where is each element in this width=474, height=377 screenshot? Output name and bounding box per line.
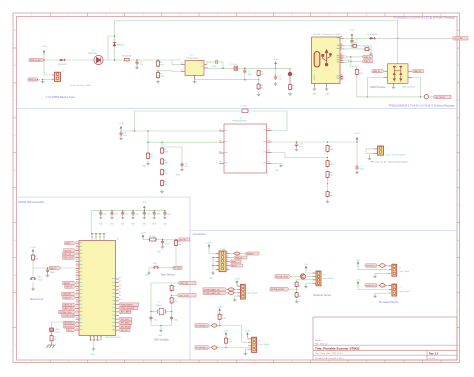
- svg-text:2: 2: [68, 361, 69, 363]
- global label mcu-right PWM_SERVO: [119, 303, 139, 306]
- usb trident symbol: [322, 50, 332, 66]
- resistor R20 power sw: [51, 332, 53, 335]
- resistor R9: [161, 169, 163, 170]
- rf screw terminal J4: [378, 146, 384, 155]
- svg-text:J?: J?: [399, 287, 401, 289]
- global label MOTOR: [364, 284, 376, 287]
- svg-text:R? 5.1K: R? 5.1K: [350, 42, 357, 44]
- junction fb col: [327, 183, 329, 185]
- wire usb D+ pair: [344, 56, 347, 58]
- svg-text:OSC_IN: OSC_IN: [180, 283, 188, 285]
- svg-text:SPI_CS: SPI_CS: [121, 330, 129, 332]
- mcu left pins: [76, 242, 79, 244]
- svg-text:+5.0V: +5.0V: [273, 59, 279, 61]
- pin esd left io: [384, 70, 388, 72]
- wire ir gnd: [246, 349, 249, 351]
- wire swdio 2: [241, 253, 245, 255]
- wire motor signal: [377, 265, 380, 267]
- svg-text:Ultrasonic Sensor: Ultrasonic Sensor: [313, 294, 331, 297]
- resistor R3b divider: [258, 83, 260, 84]
- svg-text:Conn_01x04: Conn_01x04: [258, 344, 269, 346]
- svg-text:680u: 680u: [248, 74, 252, 76]
- svg-text:GND: GND: [326, 94, 331, 96]
- junction decap 4: [132, 210, 134, 212]
- svg-text:J: J: [458, 345, 459, 347]
- resistor R3a divider: [258, 70, 260, 71]
- wire boot node: [157, 239, 178, 241]
- global label ULTRASONIC_ECHO: [270, 287, 289, 291]
- power symbol +3.3V uart: [236, 281, 238, 286]
- ground SW2: [147, 271, 151, 274]
- global label esd in: [372, 70, 384, 73]
- ground U1 return: [193, 80, 197, 83]
- wire U1 output rail: [207, 67, 209, 69]
- global label IR_SENSE_1: [195, 324, 210, 328]
- svg-text:GND: GND: [313, 94, 318, 96]
- junction ir1: [219, 325, 221, 327]
- wire ir2 node: [225, 344, 227, 347]
- global label NRST swd: [230, 264, 243, 267]
- ground ultrasonic: [304, 285, 308, 288]
- svg-text:+3.3V: +3.3V: [217, 307, 223, 309]
- wire D1 riser to top rail: [114, 21, 116, 61]
- usb-c oval symbol: [314, 52, 320, 68]
- ground usb shell 2: [325, 87, 329, 90]
- wire motor to conn: [386, 284, 392, 286]
- svg-text:+7.4V: +7.4V: [118, 123, 124, 125]
- svg-text:Boot Selector: Boot Selector: [161, 274, 175, 277]
- wire U2 vout: [272, 141, 358, 143]
- wire ultra vcc: [306, 271, 316, 273]
- ground SW1: [32, 282, 34, 287]
- ground J4: [369, 154, 371, 157]
- wire uart gnd: [235, 296, 237, 298]
- svg-text:USB_D+: USB_D+: [364, 57, 372, 59]
- pins U2 right: [267, 130, 272, 132]
- wire switch right: [159, 267, 172, 269]
- svg-text:MOTOR_1: MOTOR_1: [65, 323, 74, 325]
- pins motor conn: [388, 285, 392, 287]
- ground C10: [295, 148, 299, 151]
- svg-text:2: 2: [68, 15, 69, 17]
- junction battery rail: [43, 59, 45, 61]
- ground C1: [135, 65, 139, 68]
- ground decap 1: [99, 216, 102, 219]
- diode D3 on riser: [113, 43, 116, 47]
- svg-text:ULTRA_ECHO: ULTRA_ECHO: [63, 314, 76, 317]
- svg-text:22u: 22u: [299, 146, 302, 148]
- ground C17: [46, 273, 50, 276]
- global label esd out: [412, 70, 424, 73]
- svg-text:Title: Portable Scanner STM32: Title: Portable Scanner STM32: [315, 347, 360, 351]
- wire top rail +in: [115, 20, 398, 22]
- svg-text:USB_DM: USB_DM: [63, 294, 71, 296]
- svg-text:BT_SW: BT_SW: [174, 268, 181, 270]
- svg-text:PWR_FLAG: PWR_FLAG: [29, 78, 40, 81]
- svg-text:8: 8: [291, 361, 292, 363]
- resistor R16 boot: [143, 239, 149, 241]
- svg-text:SW?: SW?: [38, 277, 42, 279]
- svg-text:150K: 150K: [164, 162, 169, 164]
- wire VBUS: [344, 37, 398, 39]
- svg-text:USB_DP: USB_DP: [413, 71, 421, 73]
- switch SW2 boot: [154, 267, 155, 268]
- connector J5 swd: [219, 251, 226, 272]
- ground divider: [160, 190, 164, 193]
- ferrite ir2 oval: [212, 346, 217, 349]
- junction +5V tap: [275, 68, 277, 70]
- svg-text:USB Protection: USB Protection: [370, 86, 386, 89]
- junction decap 6: [153, 210, 155, 212]
- svg-text:10: 10: [365, 361, 367, 363]
- svg-text:TPS61023DRLR 2.7V-4.2V to 5.0V: TPS61023DRLR 2.7V-4.2V to 5.0V @ 3.1A Bo…: [389, 105, 456, 108]
- svg-text:SHIELD: SHIELD: [314, 74, 316, 81]
- connector J8 ir: [252, 337, 257, 352]
- power symbol +5V motor: [357, 282, 359, 287]
- pin U1 BOOT: [204, 64, 207, 66]
- microcontroller U3 STM32 body: [79, 241, 116, 336]
- ground motor: [373, 294, 377, 297]
- svg-text:ULTRA_TRIG: ULTRA_TRIG: [60, 311, 72, 314]
- pin J1-2: [52, 79, 55, 81]
- capacitor C10 vout: [296, 142, 298, 144]
- svg-text:Reset Circuit: Reset Circuit: [30, 298, 44, 301]
- wire R divider to ENA: [158, 70, 181, 73]
- svg-text:7.4V 18650 Battery Input: 7.4V 18650 Battery Input: [46, 95, 75, 99]
- ground decap 7: [163, 216, 166, 219]
- resistor R19 hse: [171, 297, 173, 298]
- wire crystal right: [165, 311, 171, 313]
- resistor R1: [157, 60, 159, 61]
- global label mcu-left IR_1: [67, 328, 76, 331]
- ground R6: [146, 162, 150, 165]
- wire sense to +5 loop: [356, 76, 358, 97]
- svg-text:16MHz: 16MHz: [156, 305, 162, 307]
- wire vbus sense drop: [351, 57, 357, 68]
- wire uart tx: [234, 288, 238, 290]
- svg-text:J3 USB_C_Receptacle_USB2.0: J3 USB_C_Receptacle_USB2.0: [313, 33, 342, 36]
- svg-text:PWR_FLAG: PWR_FLAG: [30, 59, 41, 62]
- wire vss drop: [93, 340, 95, 347]
- ground decap 4: [131, 216, 134, 219]
- wire rail jog to U1: [172, 60, 181, 65]
- wire trig: [306, 275, 313, 277]
- decoupling rail +3.3V: [91, 210, 165, 212]
- connector J6 uart: [241, 284, 246, 299]
- capacitor C20 xtal: [171, 312, 173, 316]
- wire hse top tap: [172, 282, 178, 284]
- resistor R5 CC2: [344, 48, 365, 50]
- svg-text:+3.3V: +3.3V: [234, 279, 240, 281]
- svg-text:NRST: NRST: [231, 265, 237, 267]
- power symbol +5.5V buck out: [275, 62, 277, 67]
- svg-text:100n: 100n: [167, 214, 171, 216]
- wire U2 gnd pin: [272, 163, 282, 165]
- ground U2: [279, 164, 283, 167]
- wire uart rx: [234, 292, 238, 294]
- ground swd: [211, 271, 215, 274]
- diode D2 input: [59, 59, 60, 61]
- svg-text:1: 1: [31, 15, 32, 17]
- ground battery: [41, 80, 45, 83]
- wire riser stub: [108, 36, 115, 60]
- wire J1-2 gnd: [43, 79, 53, 81]
- svg-text:100n: 100n: [103, 214, 107, 216]
- ground usb shell 1: [313, 87, 317, 90]
- svg-text:100K: 100K: [329, 164, 334, 166]
- global label COMP_UART_RX: [203, 291, 227, 294]
- junction decap 5: [144, 210, 146, 212]
- global label USB_DP: [362, 55, 373, 58]
- svg-text:5: 5: [180, 15, 181, 17]
- global label mcu-left SWDIO: [63, 281, 76, 284]
- wire boot loop: [207, 62, 215, 65]
- wire swdio: [230, 253, 234, 255]
- svg-text:SPI_MOSI: SPI_MOSI: [121, 326, 131, 328]
- svg-text:OSC_OUT: OSC_OUT: [64, 258, 74, 260]
- ground decap 2: [110, 216, 113, 219]
- svg-text:SWDIO: SWDIO: [64, 283, 71, 285]
- ground ir: [244, 352, 248, 355]
- global label ULTRA_TRIG: [275, 275, 291, 279]
- svg-text:9: 9: [329, 15, 330, 17]
- diode D5 vbus schottky: [369, 37, 370, 39]
- svg-text:F1 500mA: F1 500mA: [122, 54, 132, 57]
- wire esd vbus left loop: [367, 78, 420, 97]
- global label SWDIO: [245, 253, 246, 255]
- pin J4-2: [374, 153, 378, 155]
- svg-text:SWDIO: SWDIO: [247, 253, 254, 255]
- svg-text:100n: 100n: [114, 214, 118, 216]
- svg-text:UART_TX: UART_TX: [64, 304, 74, 307]
- svg-text:510K: 510K: [329, 149, 334, 151]
- svg-text:COMP_UART_TX: COMP_UART_TX: [204, 288, 220, 291]
- svg-text:+3.3V: +3.3V: [245, 331, 251, 333]
- resistor R3 led: [289, 84, 291, 85]
- capacitor C7 vbus: [351, 38, 353, 40]
- esd protector U4 body: [388, 64, 409, 84]
- global label mcu-right PWM_BUZZER: [119, 307, 138, 310]
- svg-text:100n: 100n: [50, 272, 54, 274]
- junction vbus riser: [397, 38, 399, 40]
- wire mcu vdd risers: [91, 234, 93, 241]
- svg-text:SPI_SCK: SPI_SCK: [121, 319, 130, 321]
- power symbol +7.4V battery: [43, 51, 45, 56]
- global label mcu-right SPI_MOSI: [119, 325, 131, 328]
- svg-text:DC Geared Motors: DC Geared Motors: [379, 301, 399, 304]
- svg-text:SW?: SW?: [153, 263, 157, 265]
- resistor R23 ir1: [219, 313, 221, 314]
- junction sbu sense 1: [350, 56, 352, 58]
- svg-text:D3: D3: [113, 40, 115, 42]
- ground C18: [161, 245, 165, 248]
- led D4 power: [289, 68, 291, 71]
- capacitor C8 boost in: [120, 131, 122, 133]
- svg-text:Reset: Reset: [38, 278, 43, 281]
- wire motor signal: [377, 284, 380, 286]
- svg-text:300K: 300K: [164, 152, 169, 154]
- wire bead to label: [429, 96, 433, 98]
- svg-text:OSC_OUT: OSC_OUT: [179, 295, 190, 297]
- svg-text:L1 4.7uH: L1 4.7uH: [230, 64, 238, 66]
- svg-text:BOOT0: BOOT0: [65, 250, 72, 252]
- svg-text:L2 1uH: L2 1uH: [240, 106, 247, 108]
- svg-text:GND: GND: [275, 170, 280, 172]
- svg-text:+5V: +5V: [350, 30, 354, 32]
- pin U1 VIN: [181, 64, 185, 66]
- svg-text:PWM_SERVO: PWM_SERVO: [121, 304, 134, 306]
- global label MOTOR: [364, 264, 376, 267]
- ground C6: [274, 82, 278, 85]
- global label mcu-left USB_DM: [62, 292, 76, 295]
- power symbol +3.3V ir2: [225, 333, 227, 338]
- svg-text:J?: J?: [399, 268, 401, 270]
- svg-text:47u: 47u: [279, 79, 282, 81]
- wire hse mid tap: [172, 294, 177, 296]
- svg-text:RF coax can be soldered onto h: RF coax can be soldered onto header: [371, 161, 408, 164]
- wire boost input rail: [121, 130, 224, 132]
- global label mcu-right SPI_CS: [119, 328, 130, 331]
- global label mcu-left ULTRA_ECHO: [62, 314, 76, 317]
- ground uart: [233, 298, 237, 301]
- svg-text:MBR230: MBR230: [117, 44, 124, 46]
- svg-text:Conn_01x03: Conn_01x03: [399, 291, 410, 293]
- ground motor: [373, 274, 377, 277]
- svg-text:+5V_USB: +5V_USB: [454, 38, 463, 40]
- global label mcu-left SWCLK: [65, 285, 76, 288]
- wire reset to mcu: [33, 267, 76, 269]
- svg-text:TPS61023DRLR: TPS61023DRLR: [232, 120, 247, 122]
- svg-text:Power: Power: [56, 331, 62, 334]
- wire divider tap: [162, 147, 182, 162]
- junction R1/R2: [157, 70, 159, 72]
- global label mcu-right ADC_BATT: [119, 310, 131, 313]
- capacitor C17 reset: [47, 268, 49, 270]
- svg-text:1.5K: 1.5K: [359, 73, 364, 75]
- wire boot to switch: [175, 247, 177, 268]
- junction sbu sense 2: [350, 61, 352, 63]
- ground C9: [180, 167, 184, 170]
- wire decap rail drop: [91, 211, 104, 234]
- svg-text:TPS5430DDA 5.2V-8.4V to 5.5V @: TPS5430DDA 5.2V-8.4V to 5.5V @ 3A Power …: [393, 16, 455, 19]
- switch SW3 power: [50, 328, 54, 332]
- svg-text:File: S31.sch: File: S31.sch: [315, 344, 328, 346]
- global label +5V_USB: [452, 37, 468, 40]
- global label mcu-left OSC_OUT: [63, 256, 76, 259]
- wire hse left rail: [151, 283, 172, 312]
- wire ir2 out: [217, 347, 251, 349]
- wire hse gnd drop: [160, 326, 162, 329]
- wire en to pin: [148, 141, 224, 143]
- resistor R6 en: [147, 152, 149, 153]
- global label COMP_UART_TX: [227, 288, 228, 290]
- junction return: [244, 79, 246, 81]
- wire U2 fb: [272, 153, 328, 158]
- svg-text:Screw_Terminal_01x02: Screw_Terminal_01x02: [70, 85, 92, 87]
- global label +5V_TRGT: [433, 95, 451, 98]
- svg-text:HSE Oscillator: HSE Oscillator: [154, 339, 169, 342]
- section divider line stm32: [17, 196, 191, 198]
- wire ir conn vcc: [248, 337, 252, 339]
- ferrite FB2: [229, 288, 234, 291]
- power symbol boost input +7.4V: [120, 127, 122, 132]
- svg-text:UART_RX: UART_RX: [64, 307, 74, 310]
- capacitor C6 out: [275, 68, 277, 74]
- power symbol +3.3V swd: [208, 245, 210, 250]
- pin J4-1: [374, 148, 378, 150]
- svg-text:5: 5: [180, 361, 181, 363]
- junction boost en: [147, 130, 149, 132]
- ground esd: [393, 83, 395, 85]
- global label mcu-left MOTOR_2: [64, 325, 76, 328]
- resistor R15 reset pullup: [32, 254, 34, 255]
- wire esd vbus right loop: [412, 78, 420, 97]
- svg-text:1.9K: 1.9K: [160, 65, 165, 67]
- boost regulator U2 TPS61023 body: [224, 124, 267, 173]
- wire reset node: [32, 261, 34, 268]
- global label mcu-left USB_DP: [63, 296, 76, 299]
- capacitor C2 boot: [215, 60, 217, 64]
- svg-text:Id: 1/1: Id: 1/1: [429, 358, 436, 360]
- resistor R18 hse: [171, 285, 173, 286]
- ground decap 5: [143, 216, 146, 219]
- junction vout end: [356, 141, 358, 143]
- pins U2 left: [219, 130, 224, 132]
- wire boost top loop: [135, 111, 288, 131]
- svg-text:+3.3V: +3.3V: [30, 247, 36, 249]
- capacitor C15 decap: [153, 211, 155, 213]
- transistor Q1 trig: [300, 274, 305, 279]
- global label mcu-right SPI_SCK: [119, 318, 132, 321]
- power symbol +3.3V ir1: [219, 309, 221, 314]
- ground C7: [350, 44, 354, 47]
- ground decap 3: [121, 216, 124, 219]
- junction C1: [136, 59, 138, 61]
- wire battery main rail: [44, 59, 181, 61]
- junction R1: [157, 59, 159, 61]
- global label mcu-right SPI_MISO: [119, 321, 132, 324]
- svg-text:3: 3: [105, 15, 106, 17]
- section divider line connectors: [190, 230, 457, 232]
- svg-text:Conn_01x04: Conn_01x04: [323, 278, 334, 280]
- svg-text:USB_D-: USB_D-: [364, 61, 371, 63]
- pins ir conn: [248, 338, 251, 340]
- svg-text:100n: 100n: [165, 243, 169, 245]
- wire echo: [297, 280, 313, 281]
- junction decap 3: [122, 210, 124, 212]
- wire uart vcc: [237, 284, 241, 287]
- resistor R4 CC1: [344, 45, 353, 47]
- junction boot a: [162, 239, 164, 241]
- wire motor gnd: [375, 273, 392, 274]
- power symbol +5V vbus: [351, 34, 353, 39]
- svg-text:ULTRA_TRIG: ULTRA_TRIG: [276, 275, 289, 278]
- ground echo divider: [295, 300, 299, 303]
- ground CC: [369, 52, 373, 55]
- svg-text:SW?: SW?: [56, 329, 60, 331]
- junction en tap: [147, 141, 149, 143]
- svg-text:100n: 100n: [135, 214, 139, 216]
- svg-text:3.3K: 3.3K: [160, 76, 165, 78]
- capacitor C16 decap: [164, 211, 166, 213]
- wire motor gnd: [375, 293, 392, 294]
- resistor R24 ir2: [225, 337, 227, 338]
- junction boot to rail: [222, 68, 224, 70]
- svg-text:J?: J?: [258, 340, 260, 342]
- pins swd right: [226, 253, 230, 255]
- svg-text:TPS5430DDA: TPS5430DDA: [186, 57, 199, 60]
- svg-text:J? SWD: J? SWD: [219, 249, 227, 251]
